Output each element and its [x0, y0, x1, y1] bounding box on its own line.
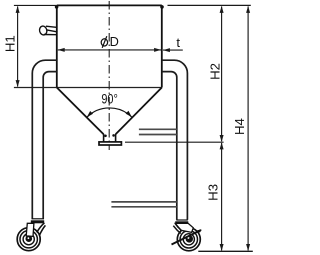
cylinder/cone seam + H1 extension line	[14, 87, 162, 89]
centerline of tank	[108, 1, 110, 150]
svg-text:H2: H2	[208, 63, 223, 80]
left leg inner line	[43, 72, 57, 219]
top right extension line	[168, 4, 251, 6]
weld dot top-left corner	[55, 5, 59, 9]
left caster collar	[31, 219, 44, 224]
upper crossbar (double line)	[139, 128, 177, 130]
svg-text:D: D	[110, 34, 119, 49]
ground extension line	[198, 250, 253, 252]
phi-D label	[101, 36, 107, 48]
t dimension	[163, 48, 183, 52]
nozzle pipe on tank left	[39, 25, 58, 35]
svg-text:90°: 90°	[101, 91, 118, 106]
phi-D dimension	[58, 48, 161, 52]
left caster wheel	[17, 228, 40, 251]
svg-text:t: t	[176, 35, 180, 50]
H4 dimension	[246, 6, 250, 251]
tank left wall	[56, 5, 58, 87]
svg-text:H3: H3	[205, 184, 220, 201]
90 degree angle arc	[85, 108, 133, 119]
right leg inner line	[162, 72, 177, 220]
H2 dimension	[220, 6, 224, 142]
cone left side	[57, 88, 104, 135]
lower crossbar (double line)	[111, 201, 176, 203]
right leg outer line	[162, 60, 188, 220]
svg-text:H1: H1	[3, 35, 18, 52]
right caster wheel	[177, 228, 200, 251]
H1 dimension	[14, 5, 57, 87]
left leg outer line	[32, 60, 57, 219]
weld dot top-right corner	[160, 5, 164, 9]
left caster fork	[26, 223, 45, 237]
neck weld dot left	[104, 135, 107, 138]
H3 dimension	[220, 142, 251, 251]
tank top line	[57, 4, 162, 6]
svg-text:H4: H4	[232, 118, 247, 135]
tank right wall	[161, 5, 163, 87]
right caster fork	[173, 223, 193, 233]
left caster hub	[26, 235, 33, 242]
right caster hub	[186, 235, 193, 242]
outlet flange	[99, 142, 121, 145]
outlet neck	[103, 134, 105, 142]
outlet-level extension line	[125, 141, 224, 143]
right caster collar	[175, 220, 188, 224]
neck weld dot right	[112, 134, 115, 137]
right caster swivel fork diagonal	[172, 230, 202, 245]
cone right side	[116, 88, 162, 135]
